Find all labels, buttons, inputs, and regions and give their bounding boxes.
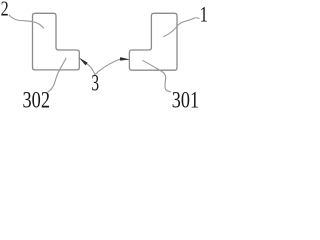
leader line from label 301 [143,60,171,92]
svg-text:302: 302 [23,86,50,110]
svg-text:3: 3 [91,72,99,97]
svg-text:2: 2 [1,0,9,21]
leader line from label 1 [163,18,199,37]
label 1 [200,2,208,27]
left L-shaped block (part 2/302) [33,13,80,70]
label 2 [1,0,9,21]
leader line from label 2 [9,15,44,28]
leader line from label 3, left branch [87,64,95,75]
arrowhead on right branch of 3 [120,57,129,60]
svg-text:301: 301 [172,86,199,110]
label 301 [172,86,199,113]
right L-shaped block (part 1/301) [129,13,177,70]
leader line from label 302 [48,58,67,92]
label 3 [91,72,99,97]
svg-text:1: 1 [200,2,208,27]
leader line from label 3, right branch [94,59,120,75]
arrowhead on left branch of 3 [80,58,88,65]
label 302 [23,86,50,113]
